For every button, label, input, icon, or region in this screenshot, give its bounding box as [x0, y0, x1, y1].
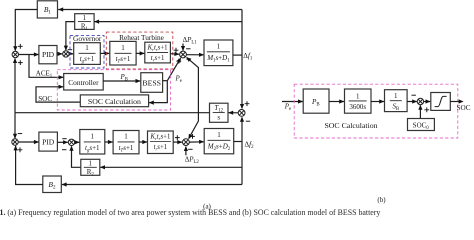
block PID area1 [39, 46, 57, 64]
block 1/(M1s+D1) [204, 40, 233, 66]
wire governor2 to turbine2 [105, 141, 113, 143]
wire Pe branch to SOC Calculation [149, 81, 167, 103]
svg-text:SOC: SOC [38, 95, 52, 103]
svg-text:PID: PID [42, 50, 55, 59]
wire saturation to SOC output [450, 101, 461, 103]
wire PID2 to sum S2b [57, 141, 67, 143]
block 1/R1 [75, 14, 94, 30]
wire reheat2 to sum S3b [173, 141, 182, 143]
block 1/(M2s+D2) [204, 129, 234, 154]
block saturation limiter [431, 93, 451, 111]
summing junction S5 SOC [417, 98, 423, 104]
wire T12 output to left rail [15, 112, 210, 114]
svg-text:1: 1 [394, 92, 398, 100]
block PB gain [303, 89, 329, 113]
svg-text:Controller: Controller [68, 78, 99, 87]
svg-text:SOC Calculation: SOC Calculation [88, 97, 141, 106]
block SOC0 initial value [408, 119, 435, 131]
block BESS [141, 73, 163, 93]
block T12/s [210, 103, 229, 122]
summing junction S2b governor2 input [68, 139, 74, 145]
dashed box BESS control system [57, 70, 170, 110]
wire turbine1 to reheat1 [136, 52, 144, 54]
wire 1/SB to sum S5 [407, 101, 417, 103]
wire M1 to Df1 node [233, 54, 242, 56]
node load disturbance DP_L2 [185, 147, 187, 156]
wire BESS Pe diagonal to S3 [167, 59, 180, 81]
wire turbine2 to reheat2 [139, 141, 147, 143]
wire S4 to T12 block [228, 112, 238, 114]
svg-text:SOC: SOC [457, 104, 471, 112]
wire S2b to governor2 [75, 141, 80, 143]
wire Df2 vertical feedback up to S4 [241, 117, 243, 184]
svg-text:1: 1 [124, 133, 128, 141]
wire 1/3600s to 1/SB [371, 101, 384, 103]
summing junction S3b area2 power balance [183, 139, 190, 146]
wire S5 to saturation [424, 101, 431, 103]
block governor area2 [80, 130, 105, 155]
block reheat area2 [148, 131, 174, 154]
dashed box Reheat Turbine [106, 32, 173, 69]
wire S2 to governor1 [69, 53, 73, 55]
block turbine area2 [113, 131, 139, 154]
svg-text:Reheat Turbine: Reheat Turbine [119, 33, 164, 42]
block 1/R2 [81, 159, 100, 175]
wire SOC0 up to S5 [419, 105, 421, 118]
wire SOC feedback to Controller [36, 87, 80, 102]
wire S1 to PID1 [19, 54, 39, 56]
wire Pe input diagram b [282, 101, 303, 103]
summing junction S2 governor1 input [63, 51, 69, 57]
wire M2 to Df2 node [234, 141, 242, 143]
node ACE1 branch to Controller [29, 55, 63, 78]
block 1/3600s [345, 89, 372, 113]
block reheat area1 [145, 42, 171, 63]
wire governor1 to turbine1 [100, 52, 109, 54]
wire tie-line diagonal to S3 [187, 57, 199, 112]
wire Df1 feedback to 1/R1 [94, 21, 242, 23]
svg-text:BESS: BESS [142, 78, 161, 87]
block SOC Calculation area1 [80, 95, 148, 107]
block governor area1 [74, 43, 101, 65]
wire S3 to M1 [187, 54, 204, 56]
wire tie-line diagonal to S3b [189, 113, 199, 139]
wire S1b to PID2 [18, 141, 38, 143]
wire Df1 vertical feedback to S4 [241, 10, 243, 109]
svg-text:Krtrs+1: Krtrs+1 [149, 134, 170, 142]
summing junction S4 tie-line [238, 110, 245, 117]
svg-text:Governor: Governor [73, 34, 102, 43]
wire Controller to BESS, label PB [103, 80, 140, 82]
svg-text:1: 1 [91, 133, 95, 141]
svg-text:1: 1 [83, 14, 87, 22]
svg-text:s: s [217, 113, 220, 121]
wire B1 output to sum S1 [15, 10, 37, 51]
dashed box Governor [70, 35, 104, 68]
block PID area2 [39, 132, 58, 151]
wire S3b to M2 [189, 141, 204, 143]
svg-text:1: 1 [85, 44, 89, 52]
svg-text:1: 1 [121, 44, 125, 52]
wire reheat1 to sum S3 [170, 53, 179, 56]
wire PID1 to sum S2 [57, 53, 62, 55]
block turbine area1 [110, 41, 136, 65]
svg-text:1: 1 [356, 92, 360, 100]
block Controller [64, 74, 103, 91]
svg-text:1. (a) Frequency regulation mo: 1. (a) Frequency regulation model of two… [0, 208, 380, 217]
wire tie power down to S1b [14, 113, 16, 139]
svg-text:1: 1 [217, 43, 221, 51]
summing junction S3 area1 power balance [180, 51, 187, 58]
dashed box SOC Calculation model [294, 84, 458, 138]
wire 1/R2 output up to S2b [72, 146, 81, 167]
svg-text:3600s: 3600s [349, 103, 366, 111]
block B1 [37, 1, 57, 18]
block 1/SB [385, 90, 408, 112]
summing junction S1b ACE2 [12, 139, 18, 145]
svg-text:1: 1 [217, 131, 221, 139]
wire B2 output to S1b [16, 146, 43, 185]
svg-text:1: 1 [89, 159, 93, 167]
wire Df2 to B2 [62, 184, 242, 186]
wire Df1 feedback to B1 [58, 9, 242, 11]
svg-text:(b): (b) [377, 196, 386, 204]
wire PB to 1/3600s [329, 101, 344, 103]
wire 1/R1 output down to S2 [66, 22, 75, 50]
wire Df2 to 1/R2 [100, 166, 242, 168]
svg-text:Krtrs+1: Krtrs+1 [147, 45, 168, 53]
svg-text:SOC Calculation: SOC Calculation [324, 121, 377, 130]
block B2 [43, 176, 62, 193]
wire tie power up to S1 [14, 58, 16, 112]
summing junction S1 ACE1 [12, 51, 18, 57]
wire BESS output Pe [163, 80, 168, 82]
svg-text:PID: PID [42, 137, 55, 146]
